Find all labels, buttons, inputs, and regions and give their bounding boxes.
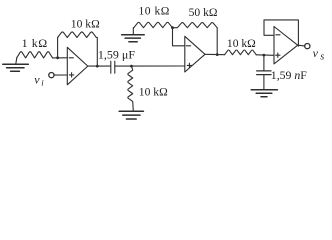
capacitor C2 1,59 nF (shunt, horizontal plates) bbox=[257, 55, 271, 89]
svg-text:1 kΩ: 1 kΩ bbox=[22, 36, 48, 50]
wire: R2 down to U1 output bbox=[96, 38, 98, 67]
wire: node A up to feedback resistor R2 bbox=[57, 38, 59, 58]
wire: v_i terminal to U1 non-inverting input bbox=[54, 74, 67, 76]
svg-text:v: v bbox=[34, 72, 40, 86]
wire: U2 output to R6 bbox=[205, 53, 225, 55]
wire: R1 to inverting node bbox=[53, 57, 68, 59]
resistor R1 1 kOhm (horizontal zigzag) bbox=[17, 52, 53, 58]
junction dot at U1 output node bbox=[96, 65, 99, 68]
op-amp U1 (triangle) bbox=[67, 47, 88, 85]
U1 minus marker bbox=[69, 57, 73, 59]
wire: U3 output to terminal bbox=[298, 44, 305, 47]
capacitor C1 1,59 uF (series, vertical plates) bbox=[111, 61, 115, 73]
svg-text:10 kΩ: 10 kΩ bbox=[139, 5, 170, 18]
ground G3 (below R3) bbox=[119, 111, 143, 119]
U3 minus marker bbox=[276, 34, 280, 36]
ground G4 (below C2) bbox=[251, 90, 277, 97]
resistor R5 50 kOhm (feedback of U2, horizontal zigzag) bbox=[173, 23, 218, 28]
svg-text:1,59 nF: 1,59 nF bbox=[271, 68, 308, 82]
junction dot at C2 node bbox=[263, 54, 266, 57]
svg-text:1,59 μF: 1,59 μF bbox=[98, 47, 135, 61]
svg-text:v: v bbox=[313, 46, 319, 60]
junction dot at U2 output node bbox=[216, 53, 219, 56]
ground G1 (left, under 1 kOhm input resistor) bbox=[3, 58, 29, 71]
resistor R3 10 kOhm (vertical zigzag to ground) bbox=[128, 66, 134, 111]
terminal v_i (input circle) bbox=[49, 73, 54, 78]
resistor R2 10 kOhm (feedback of U1, horizontal zigzag) bbox=[58, 32, 98, 38]
wire: node B down to U2 inverting input bbox=[173, 28, 185, 46]
resistor R6 10 kOhm (series, horizontal zigzag) bbox=[225, 50, 257, 55]
svg-text:10 kΩ: 10 kΩ bbox=[227, 37, 256, 50]
U2 minus marker bbox=[186, 45, 190, 47]
op-amp U2 (triangle) bbox=[185, 36, 205, 72]
U2 plus marker bbox=[187, 63, 191, 67]
op-amp U3 (triangle, follower) bbox=[274, 27, 298, 64]
terminal v_s (output circle) bbox=[305, 44, 310, 49]
svg-text:10 kΩ: 10 kΩ bbox=[139, 85, 168, 98]
svg-text:i: i bbox=[41, 78, 44, 88]
junction dot at top of R3 bbox=[130, 65, 133, 68]
U3 plus marker bbox=[276, 53, 280, 57]
svg-text:10 kΩ: 10 kΩ bbox=[71, 17, 100, 30]
wire: U3 feedback loop (output to inverting input) bbox=[264, 20, 298, 46]
U1 plus marker bbox=[69, 73, 73, 77]
wire: R5 down to U2 output bbox=[216, 28, 218, 55]
wire: R6 to U3 non-inverting input bbox=[256, 54, 274, 57]
node A junction dot (inverting input node of U1) bbox=[56, 56, 59, 59]
ground G2 (top, feeding R4 of U2) bbox=[122, 28, 145, 42]
svg-text:50 kΩ: 50 kΩ bbox=[189, 6, 218, 19]
wire: U1 output to capacitor C1 bbox=[88, 65, 111, 67]
wire: C1 to U2 non-inverting input bbox=[115, 65, 185, 67]
svg-text:s: s bbox=[320, 52, 324, 63]
resistor R4 10 kOhm (horizontal zigzag from G2 to U2 inverting node) bbox=[134, 22, 173, 27]
node B junction dot (inverting node of U2) bbox=[171, 26, 174, 29]
